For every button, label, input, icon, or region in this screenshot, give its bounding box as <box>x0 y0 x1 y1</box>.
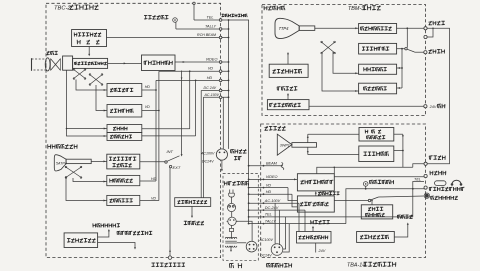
terminal: external pulse input <box>425 194 429 198</box>
wire: TALLY bus <box>249 223 346 225</box>
svg-text:VIDEO: VIDEO <box>266 175 278 179</box>
junction DC-24V at cable <box>248 209 250 211</box>
wire: 24V drop <box>315 243 317 253</box>
viewfinder CRT 5ATP4 <box>54 155 66 171</box>
box: process amplifier <box>297 174 334 191</box>
label: picture monitor tube <box>263 6 265 10</box>
monitor yoke coil X <box>321 42 336 54</box>
box: pulse distribution circuit <box>297 196 334 212</box>
connector: auxiliary power plug <box>216 149 227 160</box>
socket circle 2 <box>228 217 236 225</box>
svg-text:TEL: TEL <box>414 177 421 181</box>
cable bundle vertical A <box>222 97 224 149</box>
tally lamp (TBA) <box>363 182 368 187</box>
wire: AC100V tap <box>203 96 228 98</box>
wire: HV to waveform tube <box>394 224 408 237</box>
box: power stabilizer (TBA) <box>297 232 332 244</box>
label: to switcher handset <box>428 187 430 190</box>
wire: TEL riser to handset <box>413 182 424 217</box>
net: VD riser v2 <box>158 71 160 200</box>
svg-text:TALLY: TALLY <box>265 219 276 223</box>
label: waveform monitor tube <box>265 126 269 128</box>
label: tally lamp (camera) <box>144 15 147 17</box>
box: monitor video amplifier <box>359 24 397 34</box>
wire: TALLY riser to lamp line <box>346 189 426 224</box>
label: video monitor out <box>428 156 430 160</box>
wire: yoke to vertical deflection <box>96 85 107 111</box>
wire: sync sep to switch <box>397 48 405 50</box>
wire: HD into pulse distributor <box>292 194 297 207</box>
svg-text:INT: INT <box>167 149 174 154</box>
svg-text:HD: HD <box>151 177 157 181</box>
wire: transformer to output connector <box>237 242 246 244</box>
wire: VD bus <box>249 187 288 189</box>
svg-text:HD: HD <box>266 190 272 194</box>
label: to waveform tube <box>396 215 398 218</box>
junction BEAM at cable <box>248 165 250 167</box>
wire: DC-24V bus <box>249 209 305 211</box>
waveform CRT 3WP1 <box>277 134 292 155</box>
wire: plug stem <box>230 197 232 204</box>
wire: TEL bus <box>249 216 413 218</box>
wire: 24V input line <box>309 105 424 107</box>
socket circle 1 <box>227 203 235 211</box>
beam line squiggle <box>281 163 284 170</box>
box: simple sync signal generator <box>361 205 392 219</box>
label: video input <box>429 21 432 23</box>
box: horizontal deflection circuit <box>107 84 142 97</box>
arrow: TBA stabilizer up <box>312 227 314 232</box>
wire: DC into stabilizer (TBA) <box>304 210 306 231</box>
box: HV converter (TBM) <box>269 64 308 77</box>
terminal: video loop-through <box>424 35 427 38</box>
box: orthicon electrode adjuster <box>72 30 107 47</box>
svg-text:HD: HD <box>207 76 213 80</box>
ground arrow under transformer <box>230 246 232 250</box>
deflection yoke coil X 2 <box>89 74 103 85</box>
net: AC100V feed to stabilizer <box>202 97 204 197</box>
wire: preamp to INT contact <box>181 71 183 156</box>
box: waveform tube video amp <box>359 128 394 142</box>
label: auxiliary power plug <box>230 150 232 154</box>
wire: HD tap <box>156 79 229 81</box>
fuse <box>230 228 234 231</box>
tally lamp (camera) <box>173 18 178 23</box>
wire: TALLY drop <box>283 224 289 252</box>
dashed enclosure: TBC-2 camera head <box>46 3 221 257</box>
label: lens (renzu) <box>47 51 50 53</box>
svg-text:VD: VD <box>151 196 156 200</box>
wire: video tap to sync switch <box>406 28 408 47</box>
cable bundle vertical B <box>228 20 230 149</box>
wire: EXT return video riser <box>169 168 171 258</box>
wire: RCH BEAM tap <box>107 37 229 39</box>
wire: switch to ext pulse terminal <box>379 196 425 197</box>
wire: TEL riser to top edge <box>193 3 195 20</box>
junction VIDEO at cable <box>248 179 250 181</box>
wire: yoke to horizontal deflection <box>76 80 107 91</box>
svg-text:AC-100V: AC-100V <box>204 93 220 97</box>
lens cap dashed box <box>32 59 47 70</box>
svg-text:VD: VD <box>266 183 272 187</box>
deflection yoke coil X 1 <box>73 69 86 79</box>
transformer <box>225 237 227 238</box>
dashed enclosure: TBA-14 camera control unit <box>261 124 426 258</box>
wire: HD bus <box>249 193 292 195</box>
box: HV converter (TBA) <box>357 232 395 243</box>
svg-text:TEL: TEL <box>207 15 214 19</box>
dashed enclosure: power supply unit <box>223 174 258 261</box>
svg-text:DC 24V: DC 24V <box>204 86 217 90</box>
box: power stabilizer (camera) <box>175 198 211 207</box>
svg-text:HD: HD <box>145 85 151 89</box>
label: power supply (dengen) <box>229 264 231 268</box>
junction HD inside edge <box>263 193 265 195</box>
dashed enclosure: TBM-3 monitor <box>262 5 426 116</box>
wire: VIDEO into process amp arrow <box>294 178 296 180</box>
wire: yoke to TBM horizontal deflection <box>333 52 359 73</box>
box: sync separation circuit <box>359 43 397 54</box>
label: video main line <box>429 171 431 175</box>
wire: process amp to video main line <box>334 176 424 178</box>
label: external pulse input <box>430 196 432 199</box>
terminal: video input <box>424 27 427 30</box>
label: to each circuit (camera) <box>184 220 187 222</box>
connector: power input plug (TBA) <box>271 244 283 256</box>
label: power input plug <box>266 264 268 268</box>
box: VF vertical deflection circuit <box>107 195 140 205</box>
wire: video line to input terminal <box>397 27 424 29</box>
wire: WF tube neck lines <box>307 134 309 142</box>
junction AC-100V inside edge <box>263 202 265 204</box>
terminal: 24V input <box>424 105 427 108</box>
svg-text:24V: 24V <box>318 249 326 253</box>
switch: int/ext sync <box>368 199 370 201</box>
box: vertical deflection (TBM) <box>359 83 397 94</box>
svg-text:BEAM: BEAM <box>266 162 278 166</box>
wire: HV to viewfinder <box>98 243 135 249</box>
wire: CRT neck to video amp <box>315 27 359 29</box>
optical path bowtie <box>51 59 61 71</box>
wire: VIDEO bus <box>249 178 298 180</box>
svg-text:TALLY: TALLY <box>205 24 216 28</box>
junction VIDEO inside edge <box>263 179 265 181</box>
svg-text:24V: 24V <box>429 105 437 109</box>
wire: power connector riser DC <box>279 210 281 245</box>
wire: yoke to TBM vertical deflection <box>322 54 359 91</box>
switch: VF input INT/EXT <box>165 161 167 163</box>
box: video preamp <box>142 55 176 71</box>
box: horizontal deflection (TBM) <box>359 64 397 74</box>
net: DC24V feed to stabilizer <box>200 91 202 198</box>
box: HV converter (camera) <box>64 233 98 248</box>
label: 4-frequency pulse <box>318 192 321 194</box>
arrow: pulse dist to process amp <box>315 192 317 196</box>
AC plug prongs <box>229 190 231 194</box>
svg-text:AC100V: AC100V <box>200 151 215 155</box>
svg-text:AC-100V: AC-100V <box>264 199 281 203</box>
net: blanking to HD <box>142 135 196 137</box>
handset icon <box>435 181 447 186</box>
wire: camera cable run <box>229 20 249 224</box>
wire: HV to orthicon <box>98 231 109 238</box>
label: viewfinder HV <box>116 231 118 234</box>
svg-text:DC24V: DC24V <box>260 254 272 258</box>
wire: pulse dist to sync switch <box>334 200 368 202</box>
wire: ext sync to switch <box>415 51 424 53</box>
junction HD at cable <box>248 193 250 195</box>
wire: DC24V tap <box>201 90 228 92</box>
junction AC-100V at cable <box>248 202 250 204</box>
junction VD inside edge <box>263 187 265 189</box>
label: tally lamp (TBA) <box>369 180 371 184</box>
wire: sync gen stem <box>371 201 373 205</box>
wire: AC-100V bus <box>249 202 299 204</box>
wire: process amp output top <box>317 167 413 173</box>
terminal: external sync <box>424 51 427 54</box>
wire: VIDEO tap <box>175 61 229 63</box>
terminal: video main line <box>424 174 427 177</box>
wire: socket2 to output connector <box>236 221 252 241</box>
box: VF horizontal deflection circuit <box>107 175 140 185</box>
junction TALLY at cable <box>248 223 250 225</box>
box: protection circuit <box>107 125 142 133</box>
arrow: HV to CRT (TBM) <box>287 54 289 65</box>
label: video return input <box>152 262 155 264</box>
label: external sync <box>429 49 432 51</box>
arrow: stabilizer to circuits <box>191 206 193 216</box>
svg-text:DC-24V: DC-24V <box>265 206 279 210</box>
arrow: TBM stabilizer up <box>287 95 289 100</box>
image orthicon faceplate <box>63 56 73 70</box>
svg-text:TBM-3: TBM-3 <box>348 6 364 12</box>
viewfinder yoke coil X <box>65 167 82 179</box>
svg-text:3WP1: 3WP1 <box>280 143 290 147</box>
wire: switch to VF amp <box>140 161 165 163</box>
svg-text:TBA-14: TBA-14 <box>347 263 365 269</box>
svg-text:TBC-2: TBC-2 <box>54 6 72 12</box>
wire: VF yoke to VF horizontal deflection <box>73 178 107 182</box>
wire: BEAM bus <box>249 165 283 167</box>
connector: power unit output <box>246 241 257 252</box>
svg-text:VD: VD <box>208 67 214 71</box>
svg-text:VIDEO: VIDEO <box>206 58 218 62</box>
wire: adjuster to tube <box>88 47 90 55</box>
net: HD riser v1 <box>155 80 157 181</box>
net: protection to VD <box>142 128 190 130</box>
svg-text:DC24V: DC24V <box>202 160 214 164</box>
junction TEL at cable <box>248 216 250 218</box>
label: orthicon HV <box>92 223 94 227</box>
wire: TEL tap <box>194 19 229 21</box>
wire: VD tap <box>159 70 229 72</box>
wire: VF yoke to VF vertical deflection <box>66 176 107 201</box>
label: to each circuit (TBA) <box>310 220 312 224</box>
wire: VF CRT to VF video amp <box>91 160 107 162</box>
junction TEL inside edge <box>263 216 265 218</box>
lens element <box>45 58 50 71</box>
wire: faceplate to protection/blanking <box>67 70 108 136</box>
svg-text:EXT: EXT <box>173 165 181 170</box>
junction TALLY inside edge <box>263 223 265 225</box>
wire: tally lamp drop <box>175 22 177 29</box>
wire: video loop down the right side <box>427 28 449 164</box>
video loop bar <box>427 28 433 37</box>
image orthicon tube body <box>73 58 108 68</box>
junction DC-24V inside edge <box>263 209 265 211</box>
box: viewfinder video amplifier <box>107 154 140 169</box>
label: viewfinder <box>47 144 49 148</box>
svg-text:RCH BEAM: RCH BEAM <box>197 33 216 37</box>
label: to each circuit (TBM) <box>276 87 278 91</box>
wire: amp/timebase right loop <box>394 150 403 152</box>
box: vertical deflection circuit <box>107 105 142 118</box>
svg-text:7TP4: 7TP4 <box>279 26 290 31</box>
monitor CRT 7TP4 <box>275 18 299 38</box>
svg-text:AC100V: AC100V <box>259 238 274 242</box>
terminal: video return input <box>168 256 171 259</box>
box: time base circuit <box>359 146 394 162</box>
wire: power connector riser AC <box>274 203 276 244</box>
junction VD at cable <box>248 187 250 189</box>
wire: TEL drop <box>283 217 286 249</box>
wire: sync distribution vertical <box>401 49 403 88</box>
label: AC power input <box>223 181 225 185</box>
label: concentric camera cable <box>222 13 225 15</box>
junction BEAM inside edge <box>263 165 265 167</box>
wire: TALLY tap <box>176 28 229 30</box>
box: blanking circuit <box>107 133 142 141</box>
svg-text:5ATP4: 5ATP4 <box>56 161 67 165</box>
wire: tube to preamp <box>108 62 142 64</box>
svg-text:TEL: TEL <box>265 213 272 217</box>
wire: AC into stabilizer (TBA) <box>298 203 300 231</box>
terminal: video monitor out <box>424 162 427 165</box>
wire: VD into pulse distributor <box>288 188 297 201</box>
wire: socket1 to socket2 <box>231 212 233 218</box>
switch: ext sync select <box>405 48 407 50</box>
svg-text:VD: VD <box>145 105 150 109</box>
terminal: to switcher / handset <box>424 186 427 189</box>
box: power stabilizer (TBM) <box>267 100 309 110</box>
